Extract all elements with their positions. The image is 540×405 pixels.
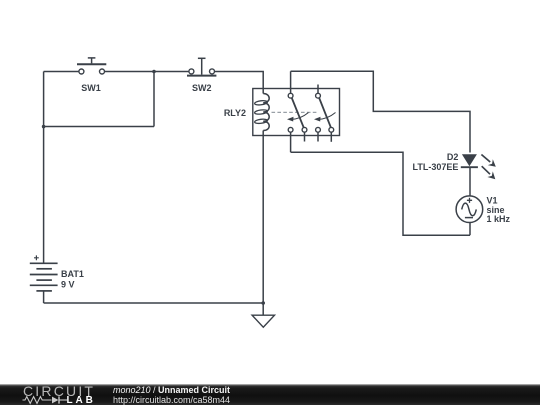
LED D2 triangle — [462, 154, 477, 166]
junction node ground — [261, 301, 265, 305]
relay contact 1 — [288, 93, 307, 132]
relay contact 1 arrow — [287, 113, 309, 122]
wire left vertical from SW1 feed down to battery — [43, 72, 45, 264]
wire coil bottom down to ground junction — [262, 131, 264, 304]
voltage source V1 — [456, 196, 483, 223]
relay contact 2 bottom stubs — [317, 132, 319, 141]
relay contact 2 top stub — [317, 85, 319, 94]
junction node B — [42, 125, 46, 129]
battery plus sign — [34, 255, 39, 260]
relay contact 1 NO stub — [304, 132, 306, 141]
wire V1 bottom down — [469, 223, 471, 236]
footer bar — [0, 384, 540, 405]
relay contact 1 top pin — [290, 71, 292, 93]
LED emission arrow 1 — [481, 155, 495, 167]
svg-text:9 V: 9 V — [61, 279, 75, 289]
wire SW2 right terminal to relay coil top — [215, 72, 264, 94]
svg-text:SW2: SW2 — [192, 83, 212, 93]
wire SW1 right terminal to SW2 left terminal — [105, 71, 189, 73]
wire relay contact1 top to LED (upper right run) — [291, 71, 470, 152]
wire top segment into SW1 left terminal — [44, 71, 79, 73]
wire bottom horizontal to ground — [44, 302, 264, 304]
LED emission arrow 2 — [482, 166, 496, 179]
svg-text:LTL-307EE: LTL-307EE — [413, 162, 459, 172]
svg-text:BAT1: BAT1 — [61, 269, 84, 279]
relay RLY2 body box — [253, 89, 340, 136]
ground symbol — [252, 303, 274, 327]
svg-text:RLY2: RLY2 — [224, 108, 246, 118]
relay contact 1 bottom pin to wire — [290, 132, 292, 152]
junction node A — [152, 70, 156, 74]
pushbutton SW2 (normally closed) — [187, 58, 216, 75]
relay dashed actuation line — [272, 111, 318, 113]
coil eye loops — [254, 100, 267, 106]
wire bottom bypass horizontal — [44, 126, 154, 128]
footer title line — [113, 386, 230, 395]
footer url line — [113, 396, 230, 405]
CircuitLab logo wordmark CIRCUIT — [23, 385, 95, 398]
svg-text:1 kHz: 1 kHz — [487, 214, 511, 224]
battery BAT1 — [30, 263, 58, 291]
wire battery bottom down — [43, 291, 45, 303]
relay contact 2 arrow — [314, 113, 336, 122]
wire relay contact1 bottom to V1 bottom (lower right run) — [291, 152, 470, 235]
LED D2 cathode bar — [461, 166, 478, 168]
relay contact 2 — [316, 93, 334, 132]
pushbutton SW1 (normally open) — [77, 58, 106, 74]
relay coil L (4 loops) — [263, 94, 269, 131]
wire vertical at junction down — [153, 72, 155, 127]
svg-text:SW1: SW1 — [81, 83, 101, 93]
svg-text:D2: D2 — [447, 152, 459, 162]
wire LED to V1 — [469, 167, 471, 197]
CircuitLab logo resistor-diode glyph — [22, 395, 68, 405]
CircuitLab logo wordmark LAB — [67, 396, 96, 405]
